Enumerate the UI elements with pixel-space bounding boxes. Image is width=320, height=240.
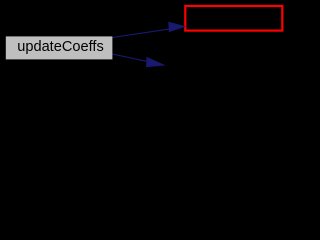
edge updateCoeffs -> hidden callee — [113, 54, 165, 67]
node hidden callee (black on black) — [165, 55, 306, 77]
node truncated callee (red border, black fill) — [185, 6, 282, 31]
svg-text:updateCoeffs: updateCoeffs — [17, 39, 104, 55]
edge updateCoeffs -> truncated callee — [113, 22, 185, 37]
node updateCoeffs (current node, grey) — [6, 36, 113, 59]
